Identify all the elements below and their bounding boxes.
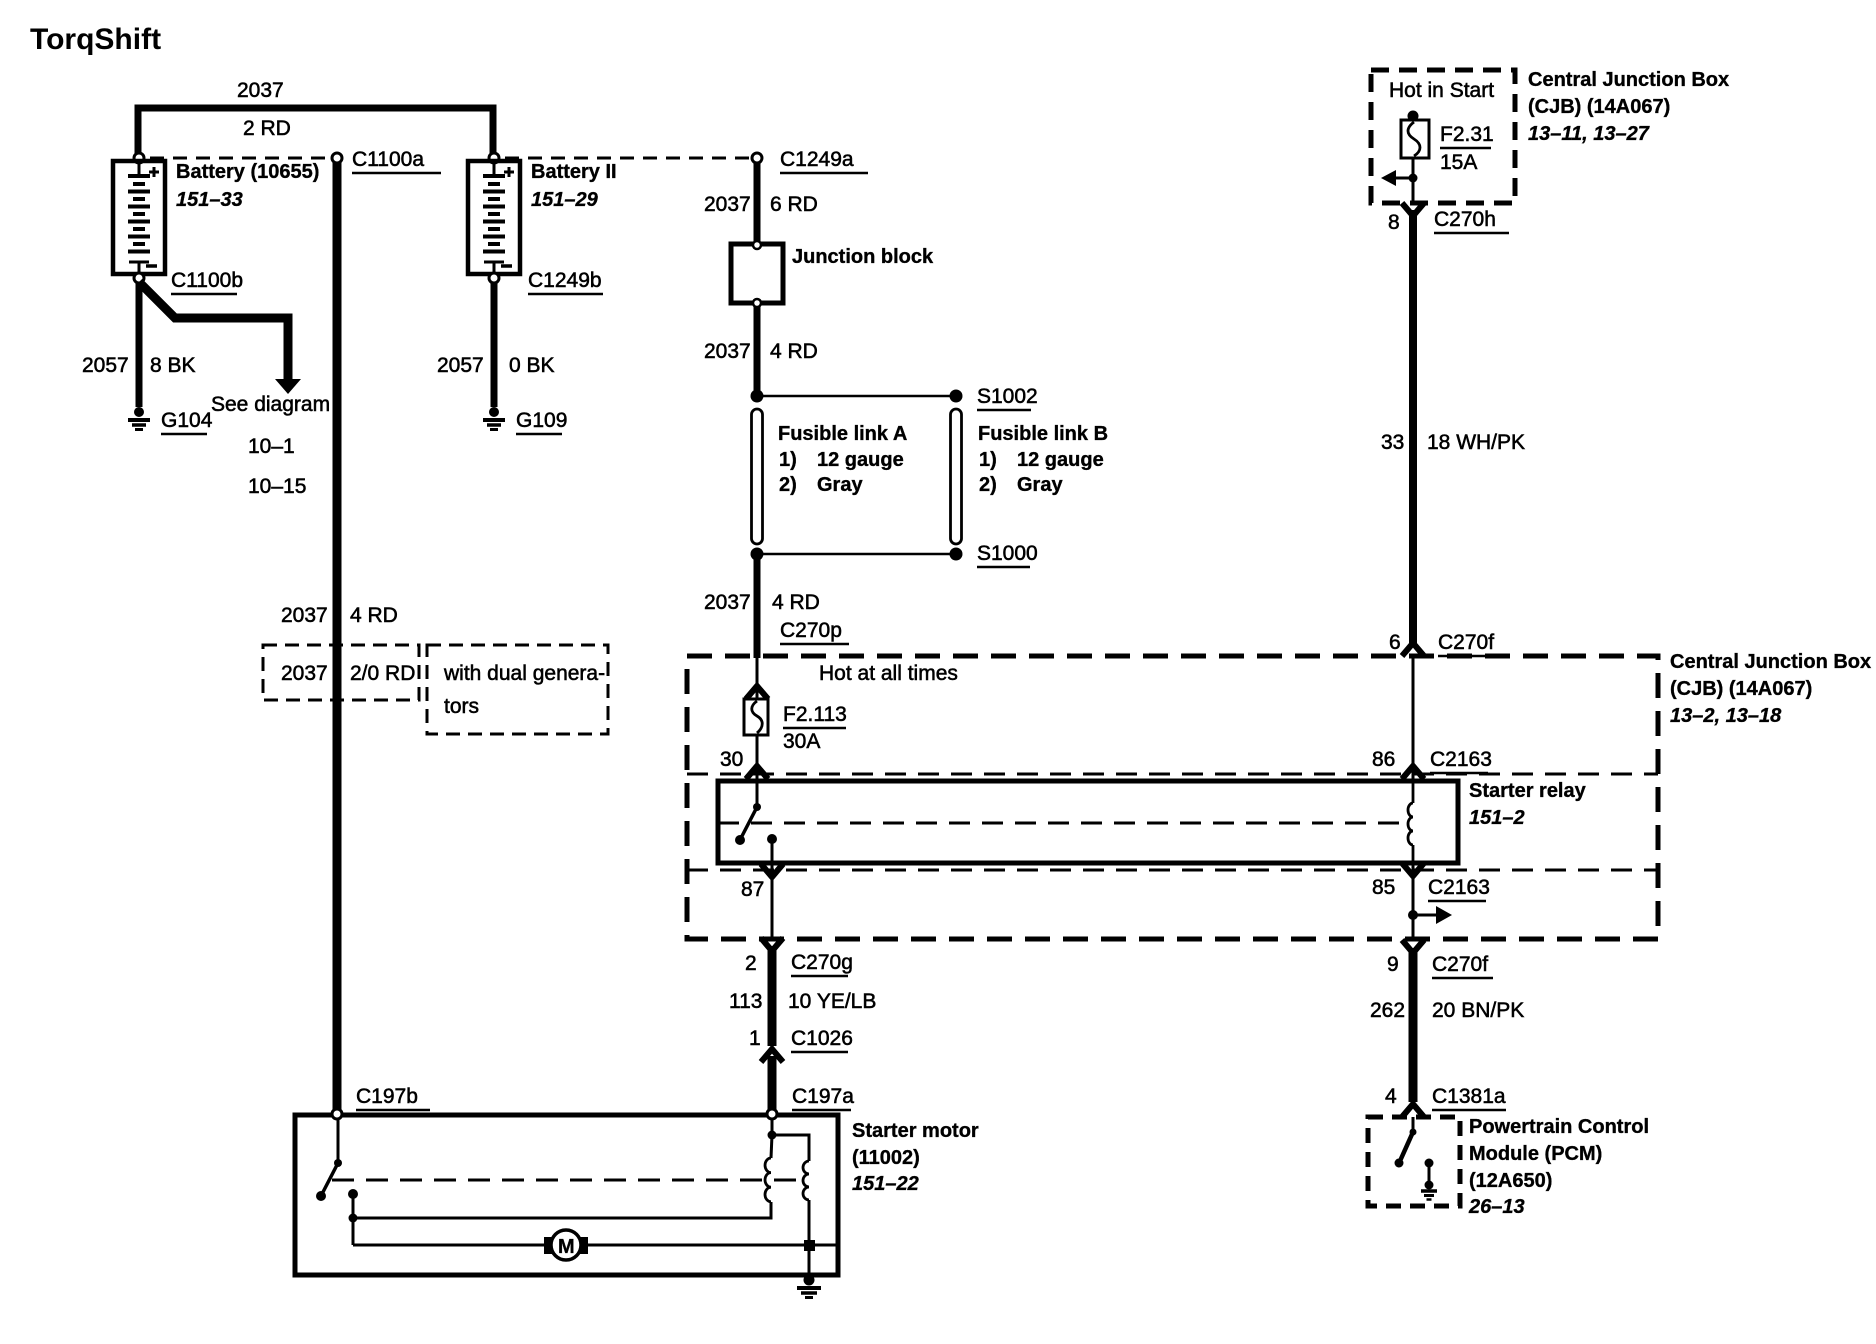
- svg-text:(CJB) (14A067): (CJB) (14A067): [1528, 96, 1670, 118]
- svg-text:0 BK: 0 BK: [509, 354, 555, 377]
- svg-text:C270h: C270h: [1434, 208, 1496, 231]
- svg-text:2 RD: 2 RD: [243, 117, 291, 140]
- svg-text:(12A650): (12A650): [1469, 1170, 1552, 1192]
- svg-text:Junction block: Junction block: [792, 246, 934, 268]
- junction block: [731, 244, 783, 303]
- arrow at 8 C270h: [1402, 203, 1424, 216]
- wire to motor: [353, 1244, 545, 1247]
- node C1249a: [752, 153, 762, 163]
- starter relay box: [718, 781, 1458, 863]
- svg-text:C2163: C2163: [1428, 876, 1490, 899]
- wire C270g to C1026: [768, 946, 777, 1046]
- node T junction: [349, 1214, 358, 1223]
- wire fuse to relay pin 30: [756, 735, 759, 781]
- ground PCM: [1421, 1181, 1437, 1200]
- svg-text:Central Junction Box: Central Junction Box: [1670, 651, 1871, 673]
- arrow at 9 C270f: [1402, 940, 1424, 953]
- wire 2037 2 RD top jumper: [138, 108, 493, 156]
- svg-text:Fusible link A: Fusible link A: [778, 423, 907, 445]
- svg-text:10–1: 10–1: [248, 435, 295, 458]
- svg-text:C270g: C270g: [791, 951, 853, 974]
- relay switch arm tip: [735, 835, 745, 845]
- svg-text:8 BK: 8 BK: [150, 354, 196, 377]
- starter switch pivot: [334, 1159, 342, 1167]
- svg-text:10–15: 10–15: [248, 475, 306, 498]
- svg-text:G109: G109: [516, 409, 567, 432]
- svg-text:(CJB) (14A067): (CJB) (14A067): [1670, 678, 1812, 700]
- starter switch arm: [322, 1163, 338, 1194]
- svg-text:TorqShift: TorqShift: [30, 23, 161, 56]
- wire fuse to C270h: [1412, 158, 1415, 205]
- svg-text:C197b: C197b: [356, 1085, 418, 1108]
- wire C197a stub: [771, 1119, 774, 1134]
- svg-text:C270f: C270f: [1432, 953, 1488, 976]
- svg-text:151–22: 151–22: [852, 1173, 919, 1195]
- starter fixed contact: [348, 1189, 358, 1199]
- wire S1000 tie line: [763, 553, 950, 556]
- svg-text:20 BN/PK: 20 BN/PK: [1432, 999, 1524, 1022]
- wire battery1 to G104: [136, 282, 143, 407]
- svg-text:8: 8: [1388, 211, 1400, 234]
- CJB inner dashed line lower: [687, 869, 1658, 872]
- svg-text:26–13: 26–13: [1468, 1196, 1525, 1218]
- node battery1 negative terminal: [134, 273, 144, 283]
- node S1000 right dot: [950, 548, 963, 561]
- svg-text:with dual genera-: with dual genera-: [443, 662, 605, 685]
- svg-text:2037: 2037: [237, 79, 284, 102]
- wire S1002 tie line: [763, 395, 950, 398]
- ground G104: [128, 408, 150, 430]
- wire relay 87 down: [771, 839, 774, 940]
- starter switch stub: [337, 1119, 340, 1162]
- svg-text:4 RD: 4 RD: [350, 604, 398, 627]
- wire dashed battery1 to C1100a: [150, 157, 330, 160]
- wire branch to See diagram arrow: [139, 282, 288, 380]
- svg-text:C1381a: C1381a: [1432, 1085, 1506, 1108]
- svg-text:C1249b: C1249b: [528, 269, 602, 292]
- arrow at C1026: [761, 1049, 783, 1062]
- relay switch arm: [741, 807, 757, 838]
- node C197b entry: [332, 1109, 342, 1119]
- svg-text:2037: 2037: [281, 662, 328, 685]
- arrow into relay 86: [1402, 766, 1424, 779]
- PCM switch arm tip: [1395, 1159, 1404, 1168]
- wire motor to ground junction: [587, 1244, 838, 1247]
- starter coil 2 hold-in: [772, 1135, 809, 1161]
- node C1100a: [332, 153, 342, 163]
- wire C1026 to C197a: [768, 1056, 777, 1112]
- svg-text:2037: 2037: [704, 591, 751, 614]
- node coil feed dot: [768, 1131, 777, 1140]
- svg-text:2037: 2037: [704, 193, 751, 216]
- svg-text:Starter relay: Starter relay: [1469, 780, 1587, 802]
- svg-text:Starter motor: Starter motor: [852, 1120, 979, 1142]
- svg-text:S1000: S1000: [977, 542, 1038, 565]
- PCM dashed box: [1368, 1117, 1460, 1206]
- svg-text:9: 9: [1387, 953, 1399, 976]
- wire main left vertical C1100a to C197b: [333, 162, 342, 1113]
- svg-text:Central Junction Box: Central Junction Box: [1528, 69, 1729, 91]
- svg-text:86: 86: [1372, 748, 1395, 771]
- starter motor box: [295, 1115, 838, 1275]
- svg-text:G104: G104: [161, 409, 213, 432]
- svg-text:F2.113: F2.113: [783, 703, 847, 726]
- arrow branch right at 85: [1413, 914, 1438, 917]
- relay switch pin30 stub: [756, 781, 759, 806]
- svg-text:2057: 2057: [437, 354, 484, 377]
- svg-text:tors: tors: [444, 695, 479, 718]
- fuse F2.31: [1401, 120, 1429, 158]
- svg-text:13–2, 13–18: 13–2, 13–18: [1670, 705, 1782, 727]
- svg-text:Module (PCM): Module (PCM): [1469, 1143, 1602, 1165]
- wire C270p into fuse: [756, 658, 759, 699]
- svg-text:2): 2): [779, 474, 797, 496]
- node branch dot: [1409, 174, 1418, 183]
- svg-text:10 YE/LB: 10 YE/LB: [788, 990, 876, 1013]
- arrow at 6 C270f: [1402, 643, 1424, 656]
- svg-text:30: 30: [720, 748, 743, 771]
- arrow at 85: [1402, 863, 1424, 876]
- svg-text:C270f: C270f: [1438, 631, 1494, 654]
- svg-text:C1100b: C1100b: [171, 269, 243, 292]
- node fuse F2.31 top dot: [1408, 111, 1419, 122]
- wire coil1 return: [353, 1202, 771, 1218]
- svg-text:13–11, 13–27: 13–11, 13–27: [1528, 123, 1650, 145]
- arrow at 87: [761, 864, 783, 877]
- svg-text:4 RD: 4 RD: [770, 340, 818, 363]
- fusible link B: [951, 409, 962, 544]
- svg-text:(11002): (11002): [852, 1147, 920, 1169]
- node 85 branch: [1408, 910, 1418, 920]
- wire junction block to S1002: [754, 306, 761, 392]
- CJB dashed enclosure: [687, 656, 1658, 939]
- svg-text:M: M: [558, 1236, 575, 1258]
- svg-text:C1249a: C1249a: [780, 148, 854, 171]
- svg-text:12 gauge: 12 gauge: [817, 449, 904, 471]
- dashed box 2037 2/0 RD: [263, 645, 419, 700]
- dashed box with dual generators: [427, 645, 608, 734]
- starter mechanical dashed link: [332, 1179, 806, 1182]
- svg-text:85: 85: [1372, 876, 1395, 899]
- node S1002 right dot: [950, 390, 963, 403]
- arrow branch left: [1394, 177, 1413, 180]
- svg-text:6 RD: 6 RD: [770, 193, 818, 216]
- svg-text:Battery (10655): Battery (10655): [176, 161, 319, 183]
- right wire 86 entering relay: [1412, 658, 1415, 781]
- svg-text:1): 1): [979, 449, 997, 471]
- arrow into relay pin 30: [746, 766, 768, 779]
- relay fixed contact: [767, 834, 777, 844]
- svg-text:6: 6: [1389, 631, 1401, 654]
- svg-text:2037: 2037: [704, 340, 751, 363]
- battery B1 (10655): [113, 161, 165, 274]
- svg-text:151–29: 151–29: [531, 189, 599, 211]
- wire C1249a to junction block: [754, 162, 761, 244]
- svg-text:2057: 2057: [82, 354, 129, 377]
- svg-text:Gray: Gray: [817, 474, 863, 496]
- PCM fixed contact: [1425, 1159, 1434, 1168]
- fuse F2.113: [744, 699, 768, 735]
- svg-text:1): 1): [779, 449, 797, 471]
- svg-text:87: 87: [741, 878, 764, 901]
- wire dashed battery2 to C1249a: [505, 157, 750, 160]
- node battery2 negative terminal: [489, 273, 499, 283]
- node S1000 splice: [751, 548, 764, 561]
- svg-text:S1002: S1002: [977, 385, 1038, 408]
- PCM ground lead: [1428, 1163, 1431, 1185]
- svg-text:C1100a: C1100a: [352, 148, 424, 171]
- relay switch pivot: [753, 803, 761, 811]
- arrow into PCM: [1402, 1104, 1424, 1117]
- svg-text:151–33: 151–33: [176, 189, 243, 211]
- PCM switch arm: [1400, 1132, 1413, 1161]
- svg-text:Hot in Start: Hot in Start: [1389, 79, 1494, 102]
- starter coil 1 pull-in: [771, 1135, 772, 1158]
- battery B2 Battery II: [468, 161, 520, 274]
- svg-text:4 RD: 4 RD: [772, 591, 820, 614]
- svg-text:Battery II: Battery II: [531, 161, 617, 183]
- svg-text:30A: 30A: [783, 730, 820, 753]
- node S1002 splice: [751, 390, 764, 403]
- svg-text:2/0 RD: 2/0 RD: [350, 662, 415, 685]
- svg-text:Fusible link B: Fusible link B: [978, 423, 1108, 445]
- svg-text:C2163: C2163: [1430, 748, 1492, 771]
- svg-text:151–2: 151–2: [1469, 807, 1525, 829]
- svg-text:Hot at all times: Hot at all times: [819, 662, 958, 685]
- node motor ground junction: [804, 1240, 815, 1251]
- motor M: [544, 1237, 553, 1254]
- wire C270f to C1381a: [1409, 948, 1418, 1102]
- starter switch arm tip: [316, 1191, 326, 1201]
- ground starter motor: [797, 1275, 821, 1298]
- CJB inner dashed line upper: [687, 773, 1658, 776]
- svg-text:15A: 15A: [1440, 151, 1477, 174]
- svg-text:113: 113: [729, 990, 762, 1013]
- wire battery2 to G109: [491, 282, 498, 407]
- Hot in Start dashed box: [1371, 70, 1515, 203]
- svg-text:Powertrain Control: Powertrain Control: [1469, 1116, 1649, 1138]
- node battery2 positive terminal: [489, 153, 499, 163]
- PCM switch stub: [1412, 1117, 1415, 1134]
- svg-text:18 WH/PK: 18 WH/PK: [1427, 431, 1525, 454]
- svg-text:C270p: C270p: [780, 619, 842, 642]
- svg-text:2): 2): [979, 474, 997, 496]
- arrow into fuse F2.113: [746, 686, 768, 699]
- node C197a entry: [767, 1109, 777, 1119]
- svg-text:See diagram: See diagram: [211, 393, 330, 416]
- wire C270h to C270f: [1409, 210, 1417, 645]
- PCM switch pivot dot: [1410, 1129, 1417, 1136]
- node battery1 positive terminal: [134, 153, 144, 163]
- svg-text:C1026: C1026: [791, 1027, 853, 1050]
- svg-text:262: 262: [1370, 999, 1405, 1022]
- svg-text:12 gauge: 12 gauge: [1017, 449, 1104, 471]
- svg-text:2: 2: [745, 952, 757, 975]
- svg-text:Gray: Gray: [1017, 474, 1063, 496]
- arrow at C270g: [761, 938, 783, 951]
- relay mechanical dashed link: [718, 822, 1406, 825]
- svg-text:4: 4: [1385, 1085, 1397, 1108]
- relay coil: [1412, 781, 1415, 803]
- wire S1000 to C270p: [754, 558, 761, 658]
- fusible link A: [752, 409, 763, 544]
- svg-text:F2.31: F2.31: [1440, 123, 1494, 146]
- svg-text:33: 33: [1381, 431, 1404, 454]
- wire contact down: [352, 1194, 355, 1245]
- svg-text:2037: 2037: [281, 604, 328, 627]
- ground G109: [483, 408, 505, 430]
- svg-text:1: 1: [749, 1027, 761, 1050]
- svg-text:C197a: C197a: [792, 1085, 854, 1108]
- wire relay 85 down: [1412, 863, 1415, 941]
